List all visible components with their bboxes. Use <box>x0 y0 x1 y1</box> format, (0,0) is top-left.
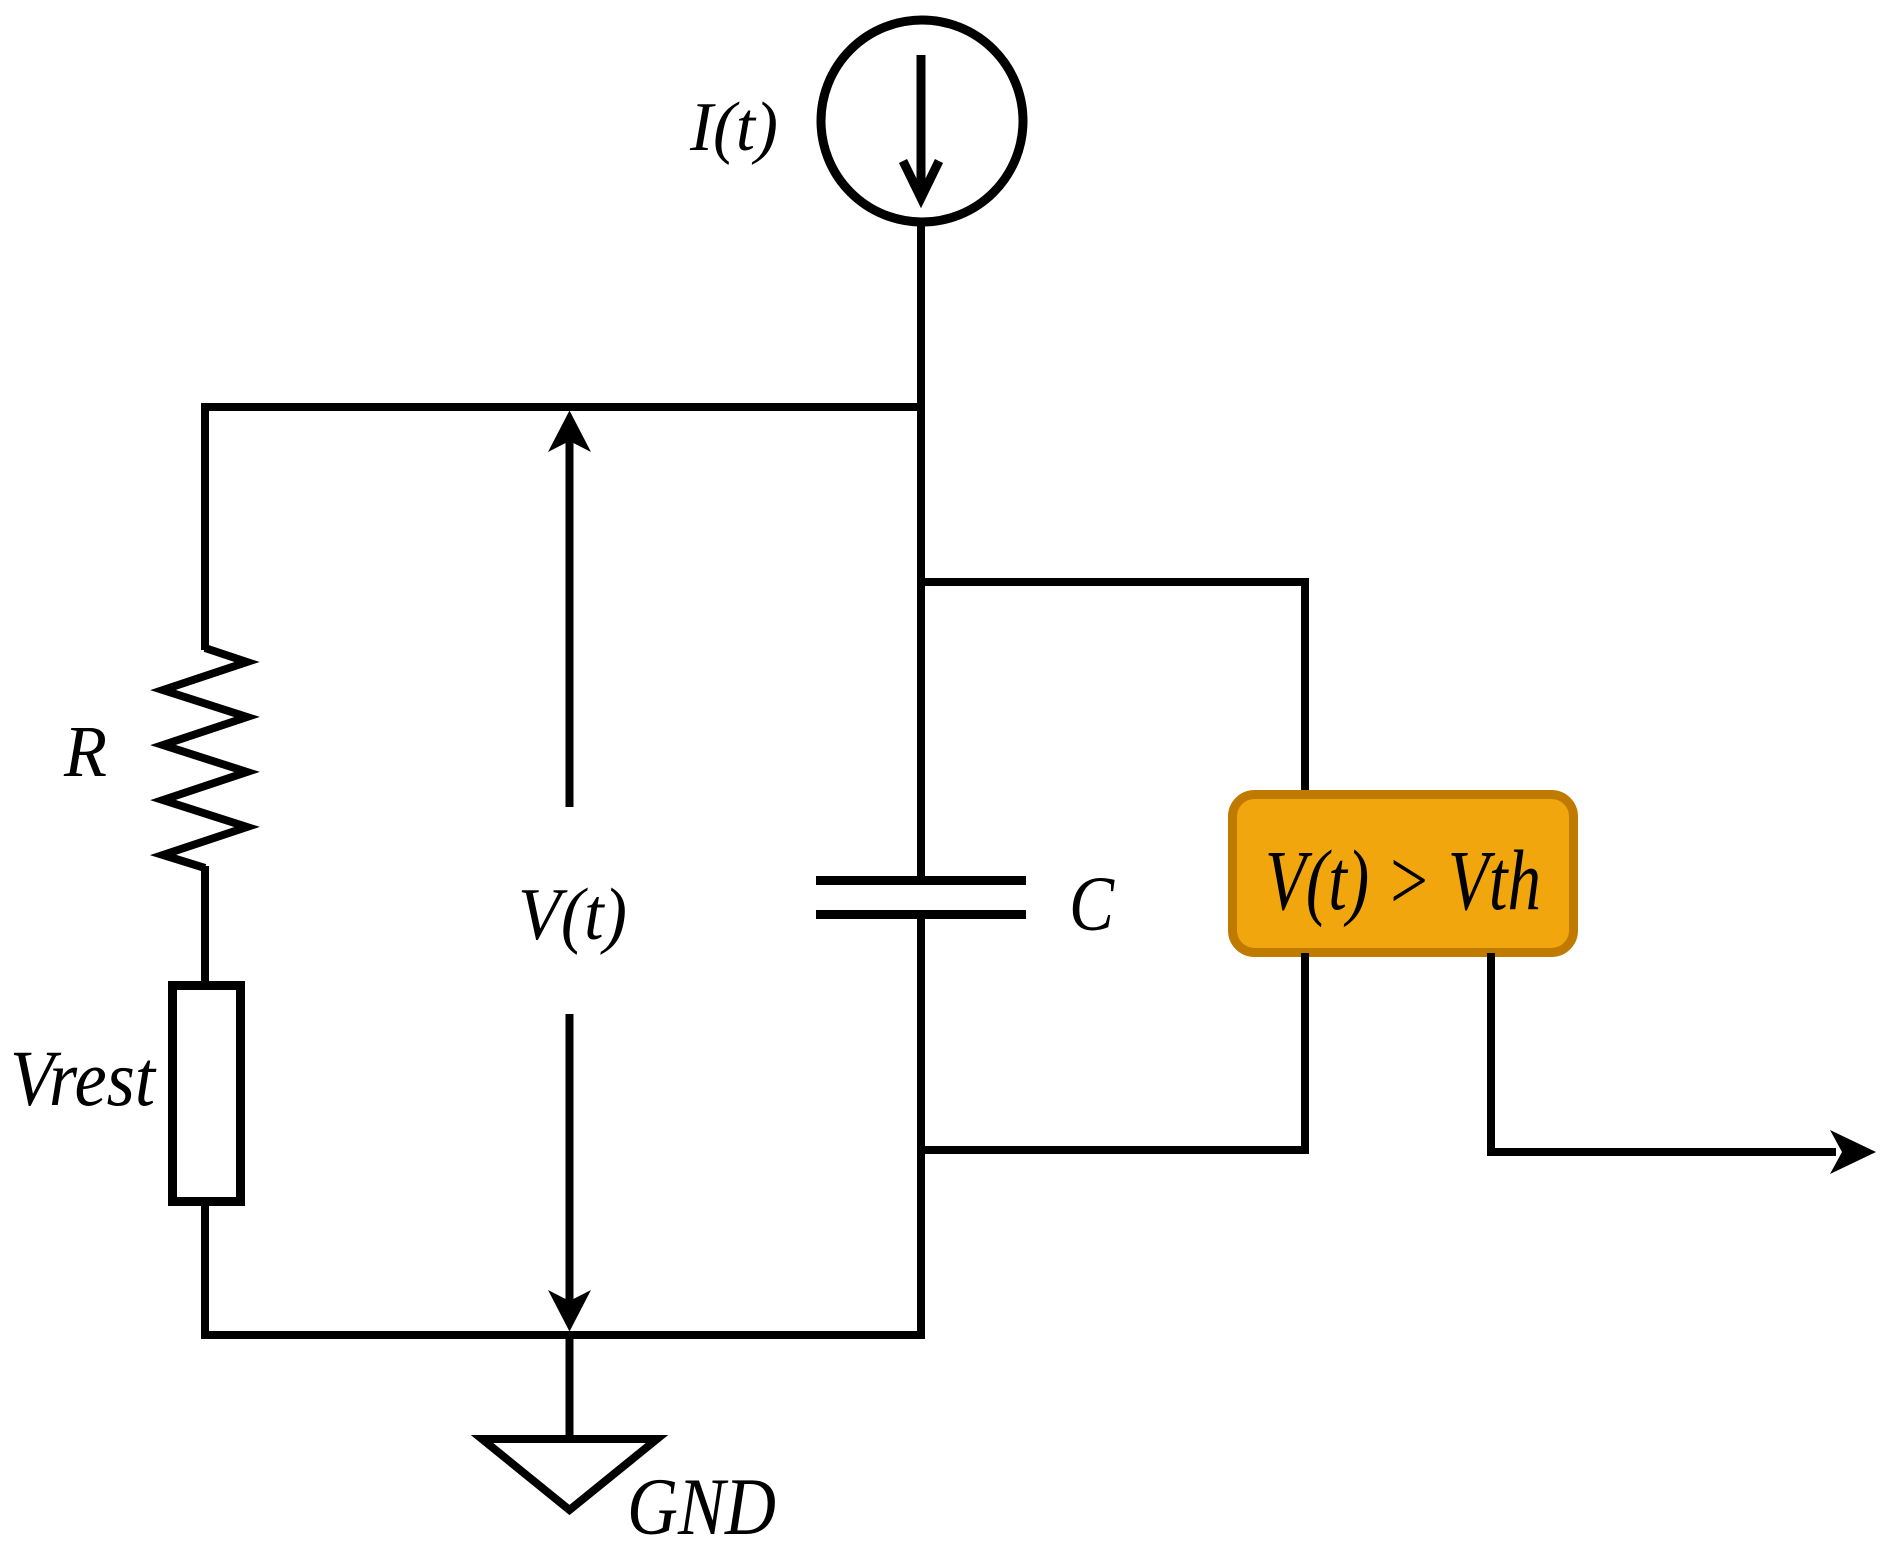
wire: left vertical above resistor <box>201 403 209 650</box>
wire: branch top horizontal <box>917 578 1309 586</box>
battery Vrest <box>173 986 241 1202</box>
svg-text:V(t): V(t) <box>518 874 627 956</box>
wire: bottom horizontal <box>201 1331 925 1339</box>
svg-text:I(t): I(t) <box>689 89 778 166</box>
svg-text:R: R <box>63 711 107 792</box>
ground wire <box>566 1335 574 1439</box>
V(t) measurement arrow upper shaft <box>566 441 574 807</box>
ground symbol <box>482 1439 657 1510</box>
wire: box bottom-left down <box>1301 953 1309 1154</box>
capacitor C top plate <box>816 876 1026 885</box>
wire: loop bottom horizontal <box>917 1146 1309 1154</box>
capacitor C bottom plate <box>816 910 1026 919</box>
wire: battery to bottom <box>201 1202 209 1339</box>
wire: output horizontal <box>1487 1148 1836 1156</box>
wire: branch right vertical to box top <box>1301 578 1309 792</box>
V(t) arrowhead top <box>548 411 591 453</box>
svg-text:V(t) > Vth: V(t) > Vth <box>1265 832 1541 928</box>
wire: box bottom-right down <box>1487 953 1495 1156</box>
V(t) arrowhead bottom <box>548 1290 591 1332</box>
wire: capacitor bottom to bottom wire <box>917 914 925 1339</box>
V(t) measurement arrow lower shaft <box>566 1014 574 1301</box>
wire: resistor to battery <box>201 866 209 985</box>
current source arrow <box>903 55 939 198</box>
output arrowhead <box>1830 1130 1876 1174</box>
comparator box V(t) > Vth <box>1233 795 1574 953</box>
wire: top horizontal <box>201 403 925 411</box>
svg-text:GND: GND <box>627 1461 776 1545</box>
svg-text:C: C <box>1069 860 1115 947</box>
current source I(t) <box>821 20 1023 222</box>
resistor R <box>163 648 247 868</box>
wire: current source to capacitor top <box>917 222 925 881</box>
svg-text:Vrest: Vrest <box>10 1036 157 1123</box>
